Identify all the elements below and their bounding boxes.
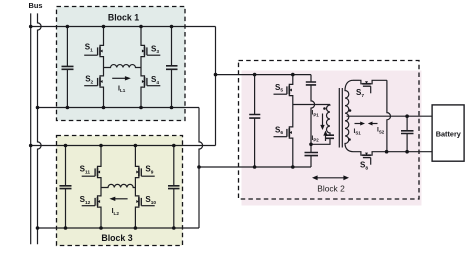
junction node block1 top rail / C1 leg <box>66 25 70 29</box>
junction node block3 top rail / S9 leg <box>134 144 138 148</box>
junction node block3 top rail / C3 leg <box>64 144 68 148</box>
junction node bus left / block3 top rail <box>29 144 33 148</box>
junction node bus right / block3 bottom rail <box>36 226 40 230</box>
junction node output positive / C-out <box>405 114 409 118</box>
wire block3 bottom rail <box>38 227 200 229</box>
junction node block3 bottom rail / S10 leg <box>134 226 138 230</box>
arrow double-headed under block 2 <box>316 177 345 179</box>
svg-text:Block 2: Block 2 <box>317 184 345 194</box>
inductor L2 <box>101 184 135 187</box>
capacitor divider lower C <box>310 144 312 152</box>
arrow I_P2 (up) <box>325 135 327 141</box>
svg-text:Bus: Bus <box>29 1 43 10</box>
junction node block1 bottom rail / S2 leg <box>102 106 106 110</box>
arrow I_L1 <box>112 77 125 79</box>
wire feed to block2 top rail <box>216 74 312 76</box>
transformer secondary winding (center-tapped) <box>345 80 353 151</box>
junction node negative link / block2 bottom feed <box>197 165 201 169</box>
junction node block1 bottom rail / C1 leg <box>66 106 70 110</box>
capacitor C-block1-right <box>171 27 173 66</box>
junction node block2 bottom rail / C5 leg <box>253 165 257 169</box>
transistor S5/S6 leg segments <box>292 75 294 167</box>
wire vertical from block1 top rail down to block3 top feed <box>215 27 217 146</box>
Block 1 dashed box (teal fill) <box>57 7 186 121</box>
junction node block1 top rail / S3 leg <box>139 25 143 29</box>
transistor S1 <box>84 44 103 58</box>
capacitor C-output <box>406 116 408 130</box>
transistor S4 <box>141 75 160 89</box>
wire block3 top rail <box>31 145 216 147</box>
inductor L1 <box>104 65 142 68</box>
transistor S11 <box>82 165 101 179</box>
bus line left <box>30 13 32 244</box>
capacitor in series with primary <box>326 135 335 138</box>
junction node block3 bottom rail / C4 leg <box>172 226 176 230</box>
junction node block1 top rail / S1 leg <box>102 25 106 29</box>
junction node capacitor divider midpoint <box>309 143 313 147</box>
wire block1 bottom rail <box>38 107 200 109</box>
junction node bus left / block1 top rail <box>29 25 33 29</box>
junction node block2 top rail / C5 leg <box>253 73 257 77</box>
transistor S11/S12 leg segments <box>100 146 102 229</box>
junction node output negative / C-out <box>405 150 409 154</box>
junction node block2 bottom rail / S6 leg <box>291 165 295 169</box>
junction node block3 top rail / S11 leg <box>99 144 103 148</box>
arrow I_S1 (right) <box>355 123 361 125</box>
junction node positive link / block2 top feed <box>214 73 218 77</box>
battery box <box>432 105 464 161</box>
svg-text:Block 1: Block 1 <box>108 13 139 23</box>
junction node block3 bottom rail / C3 leg <box>64 226 68 230</box>
wire vertical from block1 bottom rail down to block3 bottom rail (hops block3 top rail) <box>199 108 203 229</box>
junction node block3 bottom rail / S12 leg <box>99 226 103 230</box>
wire block1 top rail <box>31 26 216 28</box>
junction node block3 top rail / C4 leg <box>172 144 176 148</box>
Block 3 dashed box (olive fill) <box>57 136 183 246</box>
transistor S2 <box>84 75 103 89</box>
wire feed to block2 bottom rail <box>199 166 311 168</box>
junction node block1 bottom rail / C2 leg <box>170 106 174 110</box>
svg-text:Battery: Battery <box>436 129 462 138</box>
Block 2 dashed box <box>239 61 420 200</box>
wire secondary bottom through S8 to battery negative <box>353 151 432 153</box>
junction node block1 top rail / C2 leg <box>170 25 174 29</box>
capacitor C-block1-left <box>66 27 68 67</box>
transistor S10 <box>135 195 154 209</box>
transistor S3/S4 leg segments <box>140 27 142 108</box>
transistor S5 <box>274 83 293 97</box>
Block 2 fill (pink, offset from dashed border) <box>242 71 422 206</box>
wire center tap to battery positive <box>347 115 433 117</box>
arrow I_L2 <box>115 198 128 200</box>
capacitor C-block2-input <box>254 75 256 115</box>
wire secondary top to S7 <box>353 79 360 81</box>
transistor S12 <box>82 195 101 209</box>
transistor S3 <box>141 44 160 58</box>
transistor S9 <box>135 165 154 179</box>
transistor S8 <box>360 152 374 165</box>
transistor S7 <box>360 80 374 93</box>
capacitor C-block3-right <box>173 146 175 186</box>
junction node S7/S8 common output node <box>385 150 389 154</box>
junction node block1 bottom rail / S4 leg <box>139 106 143 110</box>
wire S7 to output bottom node (hops center tap wire) <box>374 80 391 151</box>
polarity dot secondary bottom <box>348 138 351 141</box>
wire half-bridge midpoint tap to primary <box>293 104 330 106</box>
arrow I_P1 (down) <box>322 114 324 126</box>
transformer core <box>339 88 342 148</box>
capacitor divider upper C (on vertical line, hops over tap wire) <box>310 75 312 82</box>
capacitor C-block3-left <box>65 146 67 186</box>
junction node bus right / block1 bottom rail <box>36 106 40 110</box>
transistor S6 <box>274 126 293 140</box>
polarity dot secondary top <box>349 109 352 112</box>
bus line right (hops over block1 top and block3 top feed wires) <box>38 13 42 244</box>
junction node block2 top rail / S5 leg <box>291 73 295 77</box>
transistor S1 leg segments <box>103 27 105 108</box>
transformer primary winding <box>327 105 330 135</box>
svg-text:Block 3: Block 3 <box>101 233 132 243</box>
arrow I_S2 (left) <box>372 123 378 125</box>
transistor S9/S10 leg segments <box>134 146 136 229</box>
polarity dot primary <box>323 107 326 110</box>
